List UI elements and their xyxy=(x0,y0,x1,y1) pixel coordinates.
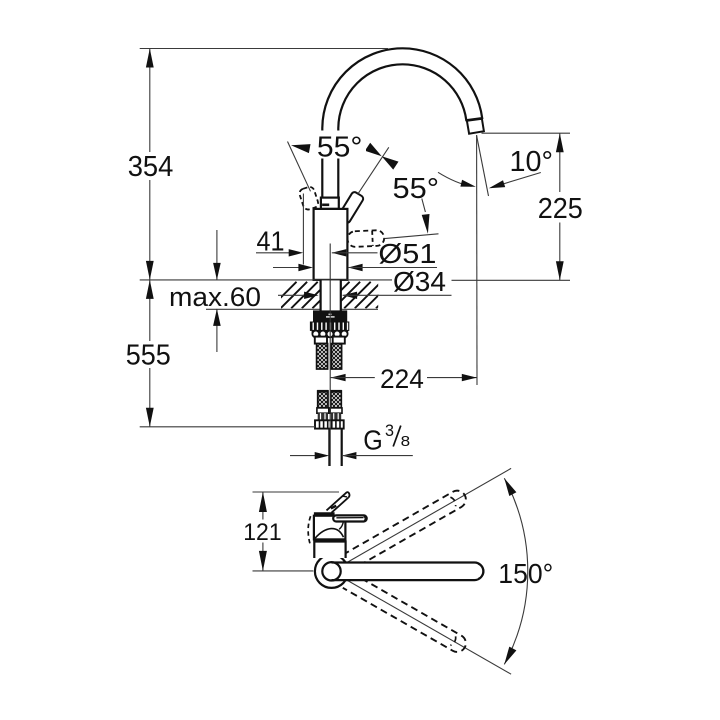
svg-text:G: G xyxy=(363,424,383,455)
svg-text:10°: 10° xyxy=(510,146,554,178)
svg-text:224: 224 xyxy=(380,364,424,394)
svg-text:225: 225 xyxy=(538,193,583,225)
svg-text:41: 41 xyxy=(257,226,285,257)
svg-text:121: 121 xyxy=(243,519,281,546)
svg-text:8: 8 xyxy=(401,434,411,450)
svg-text:354: 354 xyxy=(128,151,174,183)
svg-text:Ø34: Ø34 xyxy=(393,266,446,297)
svg-text:55°: 55° xyxy=(317,131,363,163)
svg-text:3: 3 xyxy=(385,421,394,440)
svg-text:555: 555 xyxy=(126,340,171,372)
svg-text:max.60: max.60 xyxy=(169,282,261,312)
svg-text:150°: 150° xyxy=(498,558,553,589)
svg-text:Ø51: Ø51 xyxy=(378,238,436,269)
svg-text:55°: 55° xyxy=(393,173,440,205)
